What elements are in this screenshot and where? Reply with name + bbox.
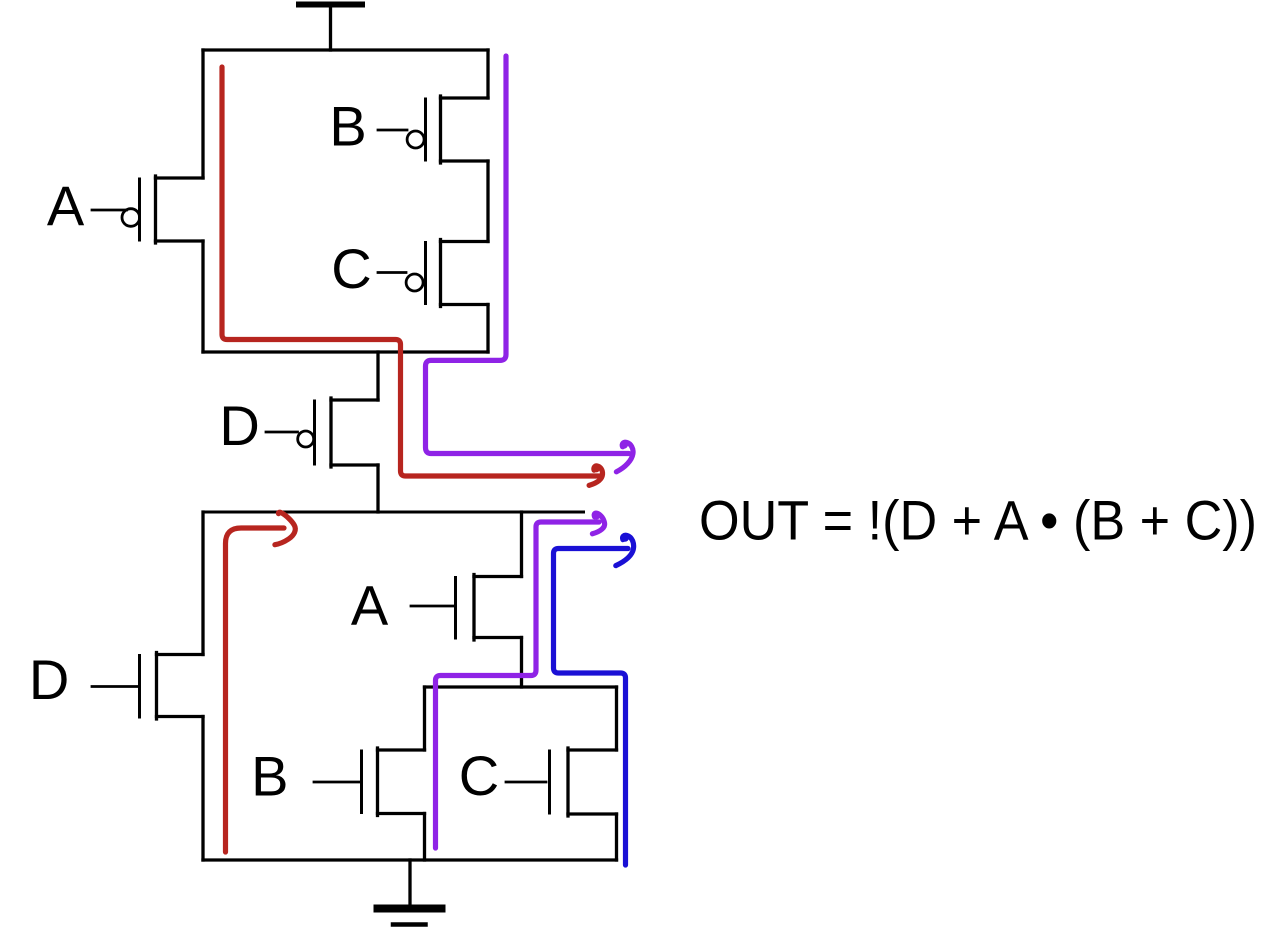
label OUT equation: [699, 490, 1257, 552]
svg-text:B: B: [251, 745, 288, 808]
annotation purple arrowhead 2: [592, 513, 604, 534]
svg-text:A: A: [47, 174, 85, 237]
transistor A PMOS (pull-up): [92, 176, 203, 243]
annotation blue arrowhead: [616, 535, 634, 565]
annotation red arrowhead 1 nub: [592, 465, 600, 473]
wire inner box left upper: [423, 687, 426, 750]
annotation purple arrowhead 1 nub: [620, 441, 628, 449]
svg-text:A: A: [351, 574, 389, 637]
annotation purple arrowhead 2 nub: [593, 512, 601, 520]
transistor D NMOS (pull-down): [92, 653, 203, 720]
wire right edge seg 3 (top block): [486, 305, 489, 353]
wire A-branch upper (output to A NMOS): [520, 512, 523, 577]
svg-text:C: C: [459, 744, 499, 807]
ground bar 1: [378, 905, 442, 913]
wire top edge of NMOS block (output node): [203, 511, 584, 514]
wire inner box right lower: [615, 814, 618, 860]
transistor D PMOS (series pull-up): [266, 398, 378, 467]
svg-text:C: C: [331, 237, 371, 300]
annotation purple current path 1 (through B/C PMOS): [426, 56, 630, 454]
transistor C NMOS (pull-down): [506, 748, 617, 816]
wire left edge upper (bottom block): [201, 512, 204, 655]
transistor C PMOS (pull-up): [378, 240, 488, 307]
wire A-branch lower (A NMOS to B/C pair): [520, 638, 523, 688]
wire stem from top block to D PMOS: [376, 352, 379, 400]
transistor A NMOS (pull-down): [411, 575, 522, 641]
wire bottom edge of PMOS block: [203, 350, 488, 353]
transistor B NMOS (pull-down): [314, 748, 425, 816]
wire stem from D PMOS to output node: [376, 465, 379, 512]
annotation red arrowhead 2: [275, 512, 295, 544]
wire inner box left lower: [423, 814, 426, 861]
wire top edge of PMOS block (VDD rail): [203, 48, 488, 51]
annotation purple arrowhead 1: [616, 442, 633, 472]
VDD stem wire: [329, 6, 332, 50]
wire left edge upper (top block): [201, 50, 204, 178]
annotation blue arrowhead nub: [621, 534, 629, 542]
wire left edge lower (top block): [201, 241, 204, 352]
svg-text:D: D: [219, 394, 259, 457]
transistor B PMOS (pull-up): [378, 96, 488, 163]
annotation red arrowhead 1: [589, 466, 602, 486]
VDD bar: [299, 2, 362, 8]
ground stem wire: [408, 860, 411, 905]
svg-text:OUT = !(D + A • (B + C)): OUT = !(D + A • (B + C)): [699, 490, 1257, 552]
annotation red current path 1 (through A PMOS): [222, 67, 600, 476]
wire right edge seg 1 (top block): [486, 50, 489, 98]
annotation purple current path 2 (through B NMOS): [436, 522, 600, 848]
wire right edge seg 2 (top block): [486, 161, 489, 242]
wire inner box right upper: [615, 687, 618, 750]
annotation red current path 2 (through D NMOS): [226, 528, 285, 852]
wire bottom edge (ground rail): [203, 858, 617, 861]
annotation blue current path (through C NMOS): [554, 549, 629, 866]
svg-text:B: B: [329, 95, 366, 158]
wire inner box top edge (B/C parallel pair): [425, 685, 617, 688]
svg-text:D: D: [29, 648, 69, 711]
ground bar 2: [393, 922, 426, 927]
wire left edge lower (bottom block): [201, 717, 204, 861]
